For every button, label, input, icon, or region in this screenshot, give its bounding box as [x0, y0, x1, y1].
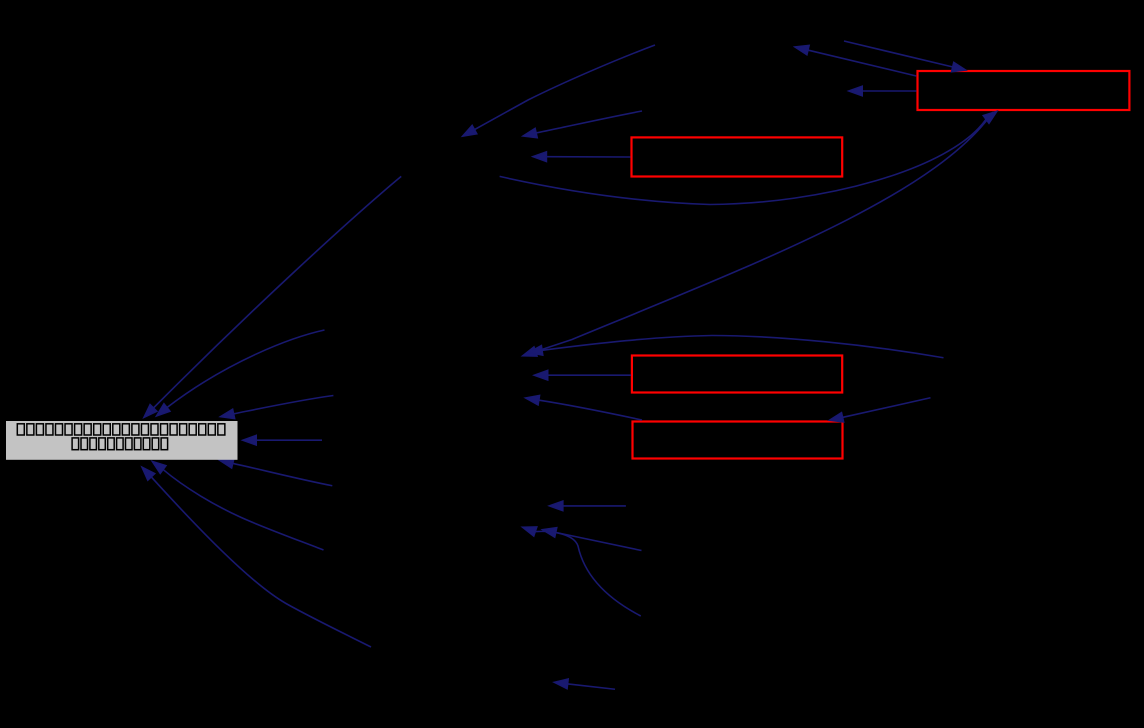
wire: B1 node15->main — [219, 458, 332, 485]
wire: alpha long diagonal boxR1->node11 — [522, 112, 993, 356]
wire: horiz C boxR2->node5 — [532, 152, 630, 162]
node R3 (truncated) — [632, 356, 842, 393]
wire: I9 node21->node22 — [554, 679, 616, 690]
wire: curve A node6->node5 — [462, 45, 655, 137]
main node (current function, grey filled) — [6, 421, 238, 460]
node R1 (truncated, top right) — [918, 71, 1130, 110]
wire: R1 horiz node13->main — [242, 435, 322, 445]
wire: B2 node16->main — [152, 461, 324, 550]
node R4 (truncated) — [633, 422, 843, 459]
node R2 (truncated) — [632, 137, 843, 176]
wire: beta long curve node10->boxR1 — [500, 111, 998, 205]
wire: B3 long node17->main — [141, 467, 371, 647]
wire: node14->boxR4 — [829, 398, 931, 423]
wire: horiz boxR3->node11 — [534, 370, 632, 380]
wire: E3 boxR1->node7 — [848, 86, 916, 96]
wire: diag boxR4->node11 — [525, 395, 642, 420]
wire: E1 node6->boxR1 — [844, 41, 967, 72]
wire: bowed arc node14->node11 — [528, 336, 944, 358]
wire: I5 S-curve node20->node15 — [522, 527, 641, 616]
wire: A3 node11->main — [220, 396, 334, 419]
wire: A1 steep node5->main — [143, 176, 401, 418]
tofu glyph row 2 — [72, 438, 168, 450]
wire: A2 node12->main — [156, 330, 325, 417]
wire: I5 line node19->node15 — [542, 527, 642, 550]
wire: I5 horiz node18->node15 — [549, 501, 626, 511]
wire: E2 boxR1->node6 — [794, 45, 916, 76]
wire: line B node7->node5 — [522, 111, 642, 138]
tofu glyph row 1 — [17, 424, 225, 435]
